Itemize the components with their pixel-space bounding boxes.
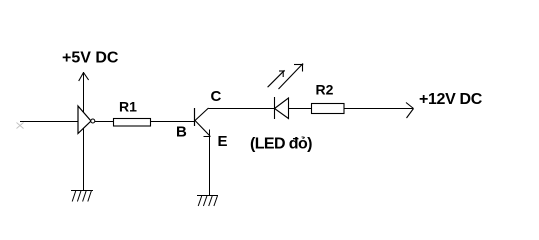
wire LED to R2 bbox=[289, 108, 312, 110]
resistor R2 bbox=[312, 104, 345, 114]
ground (inverter) bbox=[71, 191, 93, 202]
node +5V arrow head bbox=[79, 73, 89, 82]
svg-text:E: E bbox=[218, 133, 228, 150]
svg-text:C: C bbox=[211, 88, 222, 105]
svg-text:B: B bbox=[176, 124, 187, 141]
wire emitter vertical bbox=[209, 136, 211, 195]
wire collector horizontal bbox=[209, 108, 275, 110]
svg-text:R1: R1 bbox=[119, 99, 137, 115]
transistor Q1 emitter diagonal bbox=[195, 121, 210, 137]
wire R1 to base bbox=[151, 121, 194, 123]
svg-text:R2: R2 bbox=[316, 82, 334, 98]
wire R2 to +12V bbox=[344, 108, 414, 110]
resistor R1 bbox=[114, 119, 151, 127]
node output bubble bbox=[91, 119, 95, 123]
node LED emission arrow 2 bbox=[279, 64, 304, 90]
ground (emitter) bbox=[197, 196, 218, 207]
svg-text:(LED đỏ): (LED đỏ) bbox=[250, 136, 312, 153]
node LED emission arrow 1 bbox=[268, 70, 285, 87]
svg-text:+12V DC: +12V DC bbox=[419, 91, 483, 108]
op-amp U1 inverter triangle bbox=[78, 106, 91, 134]
wire input from left bbox=[20, 121, 78, 123]
diode LED D1 cathode bar bbox=[274, 97, 276, 119]
svg-text:+5V DC: +5V DC bbox=[62, 50, 119, 67]
node +12V arrow head bbox=[406, 103, 414, 119]
transistor Q1 base bar bbox=[194, 108, 196, 126]
transistor Q1 collector diagonal bbox=[195, 108, 209, 121]
diode LED D1 triangle bbox=[275, 98, 289, 119]
wire bubble to R1 bbox=[95, 121, 113, 123]
wire +5V rail vertical bbox=[83, 72, 85, 190]
node input end faint mark bbox=[17, 123, 24, 129]
node emitter arrow head bbox=[204, 130, 211, 137]
